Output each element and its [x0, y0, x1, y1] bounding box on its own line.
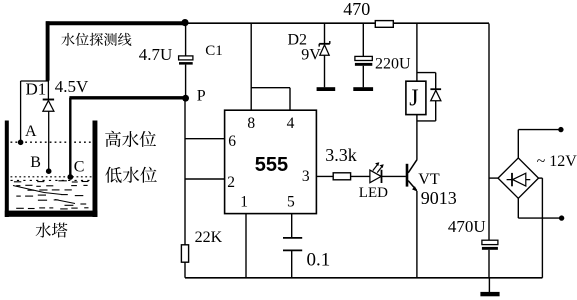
wire Vcc feed to pins 8/4: [250, 24, 252, 111]
ground main: [488, 278, 490, 292]
svg-text:1: 1: [240, 193, 248, 210]
svg-text:470: 470: [343, 0, 370, 19]
wire pin3: [316, 175, 333, 177]
capacitor 0.1: [291, 214, 293, 238]
relay J: [406, 81, 426, 114]
ground D2: [317, 87, 336, 91]
wire pin2: [185, 178, 225, 180]
wire pin6: [185, 138, 225, 140]
svg-text:~ 12V: ~ 12V: [537, 153, 577, 170]
wire P down / ground leg: [184, 98, 186, 278]
label water-tower: [36, 223, 68, 238]
node P: [182, 95, 189, 102]
svg-text:4.5V: 4.5V: [55, 77, 89, 96]
node B: [46, 168, 52, 174]
svg-text:B: B: [30, 154, 41, 171]
terminal AC top: [558, 127, 563, 132]
svg-text:470U: 470U: [448, 217, 486, 236]
ground 220U: [353, 87, 373, 91]
wire top supply rail: [184, 22, 489, 24]
wire AC top: [517, 130, 519, 158]
capacitor 220U: [362, 24, 364, 57]
resistor 22K: [181, 245, 188, 262]
wire +V right leg: [488, 24, 490, 241]
label probe-line: [61, 33, 131, 46]
resistor 3.3k: [333, 173, 350, 180]
svg-text:3.3k: 3.3k: [325, 145, 357, 165]
diode D1: [47, 80, 49, 99]
svg-text:P: P: [197, 88, 206, 105]
svg-text:VT: VT: [418, 171, 440, 188]
svg-text:5: 5: [287, 193, 295, 210]
diode flyback: [430, 88, 441, 90]
low water dashed level: [11, 176, 93, 178]
node junction probe line to rail: [181, 19, 188, 26]
bridge rectifier: [498, 158, 539, 198]
label high-level: [105, 131, 156, 147]
node C: [67, 174, 73, 180]
wire bridge left stub: [489, 177, 498, 179]
water texture: [13, 181, 89, 209]
svg-text:22K: 22K: [195, 229, 223, 246]
svg-text:220U: 220U: [375, 56, 411, 73]
wire AC bottom: [517, 198, 519, 218]
terminal AC bottom: [559, 215, 564, 220]
svg-text:555: 555: [255, 154, 288, 176]
wire electrode B: [48, 111, 50, 171]
water tank walls: [5, 121, 9, 218]
svg-text:4: 4: [287, 115, 295, 132]
wire relay feed: [416, 24, 418, 82]
high water dashed level: [11, 141, 93, 143]
wire pin1 to ground rail: [245, 214, 247, 278]
capacitor 470U: [482, 240, 498, 244]
diode D2 9V zener: [324, 23, 326, 44]
svg-text:C: C: [74, 158, 85, 175]
svg-text:J: J: [409, 85, 418, 111]
svg-text:4.7U: 4.7U: [139, 45, 173, 64]
svg-text:0.1: 0.1: [307, 250, 331, 271]
wire to electrode A: [21, 80, 48, 82]
transistor Q1 VT 9013: [406, 164, 409, 187]
svg-text:8: 8: [247, 115, 255, 132]
resistor 470: [375, 21, 393, 28]
svg-text:A: A: [25, 123, 37, 140]
svg-text:LED: LED: [359, 185, 388, 201]
wire emitter to ground rail: [416, 191, 418, 278]
wire ground rail: [185, 277, 542, 279]
svg-text:C1: C1: [205, 43, 223, 59]
svg-text:9013: 9013: [421, 188, 457, 208]
capacitor C1 4.7U: [185, 24, 187, 56]
wire collector to relay: [416, 115, 418, 160]
label low-level: [105, 167, 157, 183]
node A: [18, 140, 24, 146]
wire bridge right to ground rail: [539, 177, 543, 179]
svg-text:3: 3: [302, 168, 310, 185]
svg-text:2: 2: [227, 174, 235, 191]
LED: [370, 170, 381, 183]
IC op 555 U1: [225, 110, 317, 213]
wire water-level probe line (thick): [46, 21, 186, 25]
wire electrode C to node P (thick): [69, 98, 71, 177]
svg-text:9V: 9V: [301, 46, 321, 63]
svg-text:D1: D1: [26, 80, 47, 99]
wire relay/diode bracket: [417, 72, 436, 74]
svg-text:6: 6: [228, 133, 236, 150]
